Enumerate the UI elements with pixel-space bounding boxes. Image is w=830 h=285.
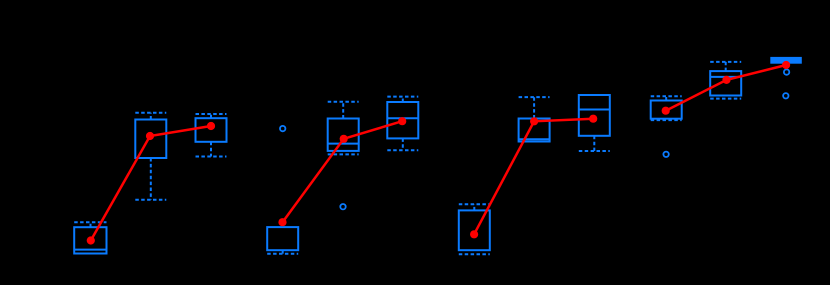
box group4 right: collapsed box C4 (filled bar) [770,57,802,64]
outlier circle group4 col C lower [783,93,788,98]
mean line group4 [662,61,791,115]
box B3 top whisker [519,97,550,118]
box B4 whiskers [710,62,741,99]
box group1 right: box C1 [196,118,227,142]
box A1 top whisker [74,222,106,227]
box group3 low: box A3 [459,210,490,250]
box A4 whiskers [651,96,682,120]
box A2 bottom whisker [267,250,298,254]
box A3 whiskers [459,204,490,254]
box group1 low: box A1 [74,227,106,253]
box C3 bottom whisker [579,136,610,151]
box group2 mid: box B2 [328,119,359,151]
box B1 whiskers [135,113,166,200]
box group3 mid: box B3 [519,119,550,142]
box C2 whiskers [387,97,418,151]
outlier circle group2 col A [280,126,285,131]
outlier circle group4 col C upper [784,69,789,74]
box group3 right: box C3 [579,95,610,136]
mean line group3 [470,115,597,239]
box group4 low: box A4 [651,101,682,119]
box B2 whiskers [328,102,359,155]
box group2 low: box A2 [267,227,298,250]
box group2 right: box C2 [387,102,418,138]
outlier circle group2 col B low [340,204,345,209]
outlier circle group4 col A low [663,152,668,157]
mean line group2 [278,117,406,226]
box C1 whiskers [196,114,227,157]
box group4 mid: box B4 [710,71,741,95]
mean line group1 [87,122,215,245]
box group1 mid: box B1 [135,120,166,159]
